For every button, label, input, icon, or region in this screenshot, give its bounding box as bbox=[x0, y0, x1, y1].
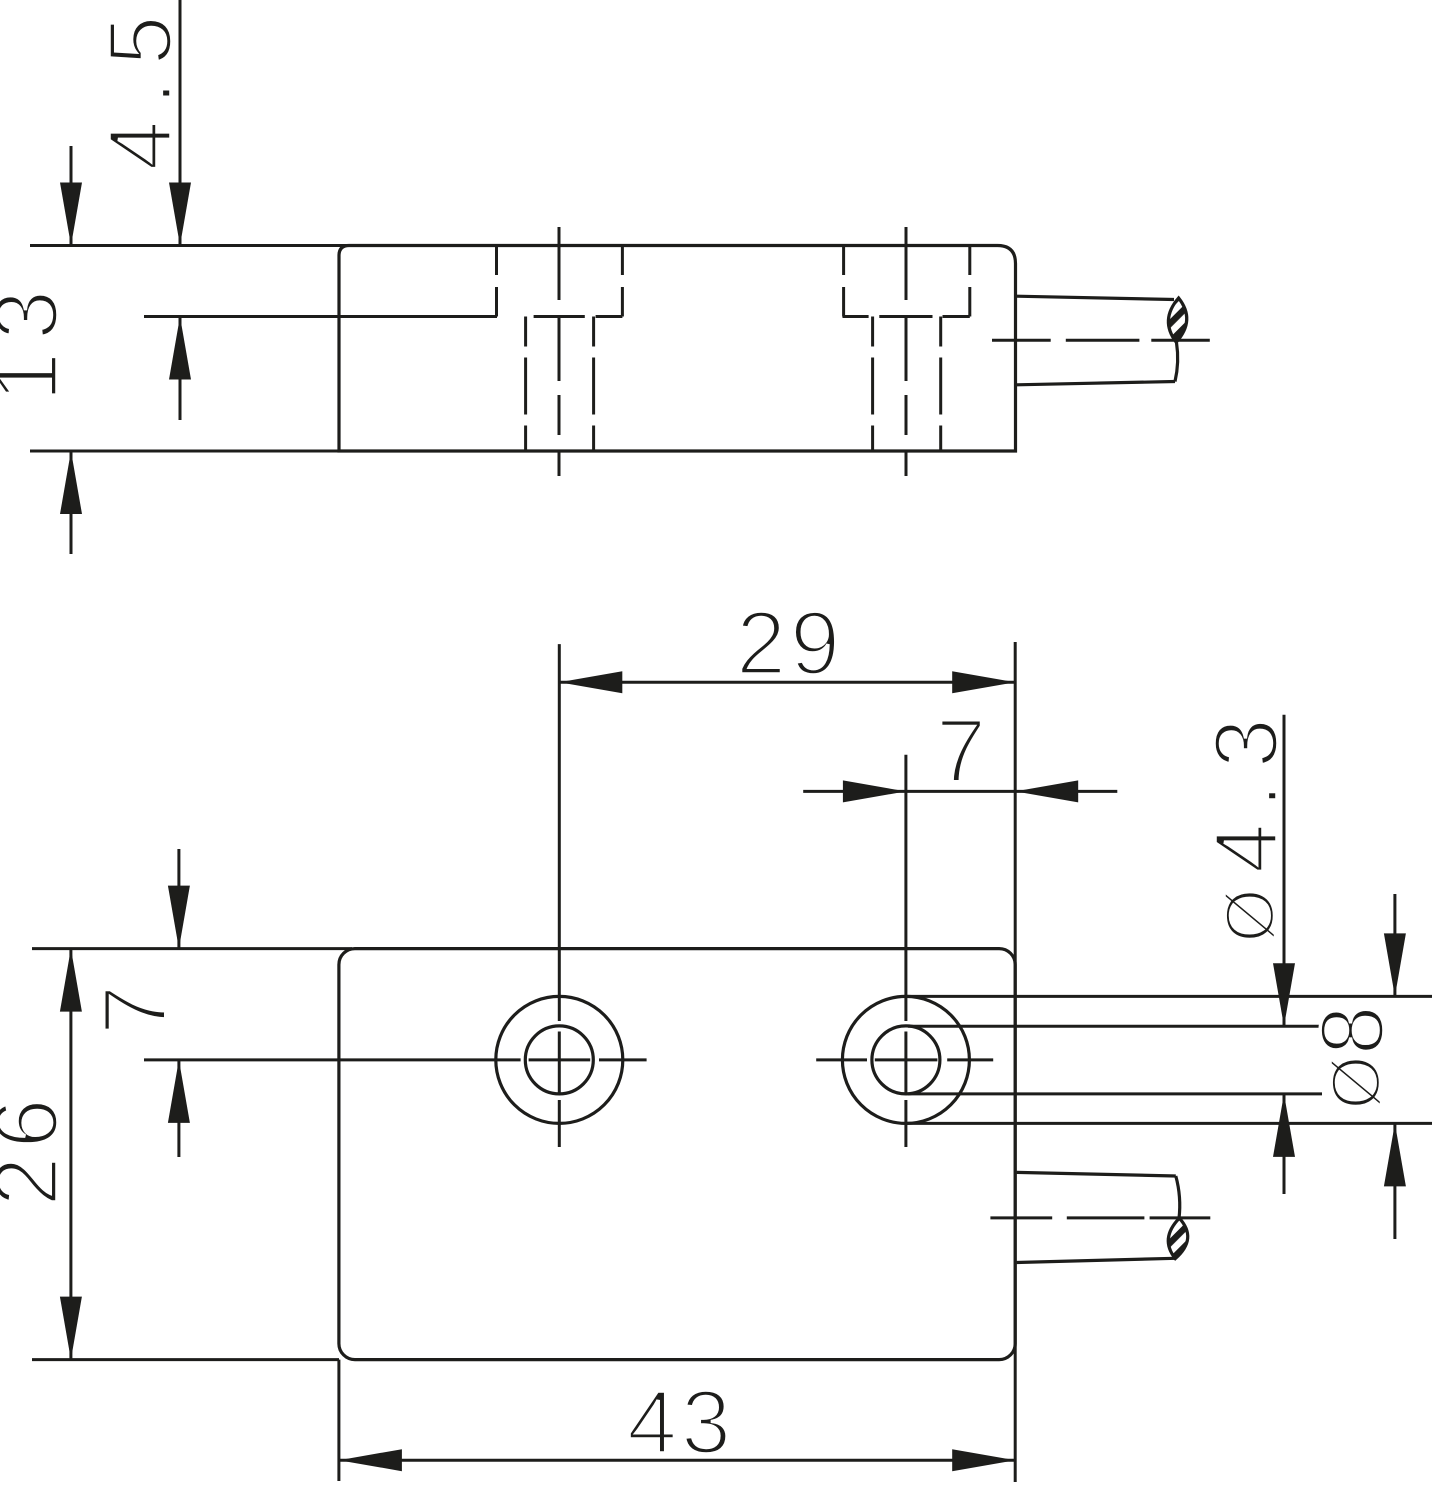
dimension dia8 arrow bottom bbox=[1384, 1123, 1406, 1186]
front view: hole2 inner circle bbox=[872, 1026, 940, 1094]
front view: cable cut face bbox=[1168, 1218, 1187, 1258]
front view: hole2 outer circle bbox=[842, 996, 969, 1123]
side view: counterbore hidden edge left hole1 bbox=[495, 247, 498, 317]
svg-text:Ø8: Ø8 bbox=[1303, 1005, 1403, 1110]
side view: counterbore step line hole1 (visible part) bbox=[144, 315, 497, 318]
dimension 43 arrow right bbox=[952, 1449, 1015, 1471]
front view: hole2 horizontal centerline bbox=[816, 1058, 993, 1061]
svg-text:7: 7 bbox=[936, 702, 986, 802]
side view: counterbore step right segment hole1 bbox=[596, 315, 623, 318]
diameter 4.3 tangent line bottom bbox=[908, 1092, 1322, 1095]
front view: bottom extension line bbox=[32, 1358, 339, 1361]
dimension 7 left line bbox=[177, 849, 180, 1157]
side view: through hole hidden edge right hole2 bbox=[939, 317, 942, 452]
dimension dia4.3 arrow bottom bbox=[1273, 1094, 1295, 1157]
dimension 7 left arrow top bbox=[168, 886, 190, 949]
dimension 7 top arrow right bbox=[1015, 780, 1078, 802]
side view: counterbore hidden edge left hole2 bbox=[842, 247, 845, 317]
side view: bottom extension line bbox=[30, 450, 339, 453]
front view: cable bottom edge bbox=[1017, 1258, 1175, 1262]
dimension 7 top arrow left bbox=[843, 780, 906, 802]
dimension dia4.3 arrow top bbox=[1273, 963, 1295, 1026]
side view: through hole hidden edge left hole2 bbox=[871, 317, 874, 452]
side view: cable bottom edge bbox=[1017, 382, 1176, 385]
svg-text:26: 26 bbox=[0, 1090, 77, 1206]
front view: hole1 vertical centerline / extension bbox=[558, 644, 561, 1147]
dimension dia8 arrow top bbox=[1384, 933, 1406, 996]
side view: through hole hidden edge right hole1 bbox=[592, 317, 595, 452]
side view: counterbore step left segment hole2 bbox=[843, 315, 869, 318]
dimension 43 line bbox=[339, 1459, 1015, 1462]
side view: counterbore hidden edge right hole1 bbox=[621, 247, 624, 317]
front view: top extension line bbox=[32, 947, 352, 950]
dimension 26 arrow bottom bbox=[60, 1297, 82, 1360]
diameter 8 tangent line top bbox=[907, 995, 1432, 998]
diameter 8 tangent line bottom bbox=[907, 1122, 1432, 1125]
side view: hole1 centerline bbox=[558, 227, 561, 476]
front view: cable top edge bbox=[1017, 1172, 1176, 1176]
side view: through hole hidden edge left hole1 bbox=[524, 317, 527, 452]
front view: right edge extension line bbox=[1014, 642, 1017, 1482]
svg-text:29: 29 bbox=[736, 594, 844, 694]
side view: counterbore step right segment hole2 bbox=[943, 315, 970, 318]
dimension 13 line bbox=[70, 146, 73, 554]
front view: hole1 outer circle bbox=[496, 996, 623, 1123]
diameter 4.3 tangent line top bbox=[908, 1025, 1322, 1028]
side view: counterbore step hidden dash hole1 bbox=[534, 315, 585, 318]
side view: counterbore hidden edge right hole2 bbox=[968, 247, 971, 317]
dimension 29 arrow right bbox=[952, 671, 1015, 693]
front view: hole2 vertical centerline / extension bbox=[904, 755, 907, 1147]
side view: counterbore step hidden dash hole2 bbox=[879, 315, 932, 318]
dimension 43 arrow left bbox=[339, 1449, 402, 1471]
front view: cable break curve bbox=[1176, 1176, 1180, 1218]
dimension 4.5 arrow top bbox=[169, 183, 191, 246]
dimension 29 arrow left bbox=[559, 671, 622, 693]
dimension dia4.3 line bbox=[1283, 715, 1286, 1194]
side view: hole2 centerline bbox=[905, 227, 908, 476]
svg-text:43: 43 bbox=[627, 1373, 735, 1473]
front view: body outline bbox=[339, 949, 1015, 1360]
dimension 7 left arrow bottom bbox=[168, 1060, 190, 1123]
dimension dia8 line bbox=[1393, 894, 1396, 1239]
dimension 13 arrow bottom bbox=[60, 451, 82, 514]
front view: cable centerline bbox=[990, 1216, 1210, 1219]
front view: left edge extension line bbox=[337, 1360, 340, 1481]
front view: hole1 inner circle bbox=[525, 1026, 593, 1094]
front view: hole1 horizontal centerline bbox=[144, 1058, 647, 1061]
dimension 4.5 line bbox=[179, 0, 182, 420]
dimension 4.5 arrow bottom bbox=[169, 317, 191, 380]
svg-text:7: 7 bbox=[86, 985, 186, 1035]
dimension 13 arrow top bbox=[60, 183, 82, 246]
svg-text:Ø4.3: Ø4.3 bbox=[1197, 703, 1297, 943]
side view: cable centerline bbox=[992, 339, 1210, 342]
dimension 26 arrow top bbox=[60, 949, 82, 1012]
side view: top extension line bbox=[30, 244, 352, 247]
dimension 7 top line bbox=[803, 790, 1117, 793]
side view: cable cut face bbox=[1168, 298, 1186, 342]
side view: cable break curve bbox=[1175, 343, 1178, 382]
svg-text:4.5: 4.5 bbox=[91, 0, 191, 170]
svg-text:13: 13 bbox=[0, 278, 77, 402]
side view: cable top edge bbox=[1017, 296, 1175, 299]
dimension 29 line bbox=[559, 681, 1015, 684]
side view: body outline bbox=[339, 246, 1016, 452]
dimension 26 line bbox=[69, 949, 72, 1360]
